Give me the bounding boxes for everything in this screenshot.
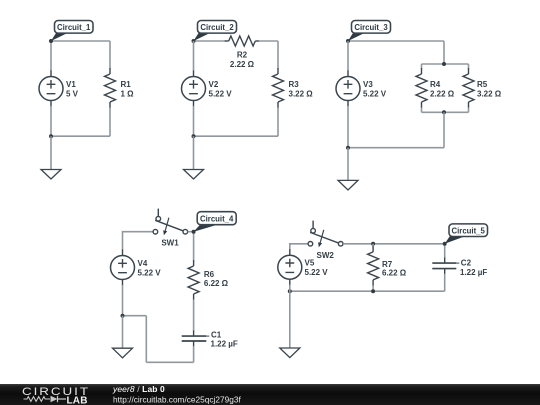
wire bottom C4 (146, 361, 193, 363)
wire V2 bottom (193, 106, 195, 136)
wire R7 bottom (372, 285, 374, 291)
svg-text:R4: R4 (430, 80, 441, 89)
resistor R4 (416, 68, 427, 108)
wire switch common to node C4 (188, 231, 194, 233)
wire R3 bottom (277, 108, 279, 137)
svg-text:2.22 Ω: 2.22 Ω (230, 60, 255, 69)
wire bottom C1 (51, 135, 110, 137)
switch SW1 (153, 209, 188, 236)
resistor R2 (225, 36, 260, 46)
svg-text:1.22 µF: 1.22 µF (211, 340, 238, 349)
svg-text:6.22 Ω: 6.22 Ω (204, 279, 229, 288)
wire R5 top (468, 64, 470, 69)
wire V1 bottom (50, 106, 52, 136)
wire top-left C2 (194, 40, 226, 42)
wire V2 top (193, 41, 195, 71)
label R7 6.22 ohm (382, 260, 407, 278)
node dot top-left C3 (346, 39, 350, 43)
wire C2 top (444, 244, 446, 258)
svg-text:V4: V4 (138, 259, 148, 268)
node Circuit_1 callout (51, 21, 93, 42)
wire V5 bottom (289, 285, 291, 292)
junction dot C4 (121, 314, 125, 318)
node dot C5 (443, 242, 447, 246)
svg-text:Circuit_2: Circuit_2 (200, 23, 234, 32)
wire R4 top (421, 64, 423, 69)
svg-text:5.22 V: 5.22 V (138, 268, 162, 277)
resistor R7 (368, 246, 379, 286)
label V3 5.22 V (363, 80, 387, 98)
label R1 1 ohm (121, 80, 135, 98)
ground C3 (338, 180, 358, 190)
wire from parallel pair down (443, 112, 445, 147)
wire R7 top (372, 244, 374, 247)
wire R5 bottom (468, 108, 470, 113)
label R2 2.22 ohm (230, 51, 255, 69)
svg-text:R2: R2 (237, 51, 248, 60)
wire V3 bottom (347, 106, 349, 148)
wire bottom C3 (348, 147, 444, 149)
junction dot parallel top (442, 62, 446, 66)
svg-text:LAB: LAB (67, 395, 88, 405)
junction dot V5 bottom (288, 289, 292, 293)
junction dot bottom C2 (192, 134, 196, 138)
svg-text:R1: R1 (121, 80, 132, 89)
junction dot bottom C3 (346, 146, 350, 150)
wire bottom C2 (194, 135, 279, 137)
wire to ground C1 (50, 136, 52, 169)
label R3 3.22 ohm (289, 80, 314, 98)
svg-text:C1: C1 (211, 330, 222, 339)
svg-text:1.22 µF: 1.22 µF (460, 268, 487, 277)
wire V3 top (347, 41, 349, 71)
wire V5 top (290, 244, 308, 250)
svg-text:5.22 V: 5.22 V (209, 89, 233, 98)
resistor R3 (273, 68, 284, 108)
svg-text:R6: R6 (204, 270, 215, 279)
junction dot parallel bottom (442, 110, 446, 114)
wire R6 bottom (193, 300, 195, 332)
ground C5 (280, 348, 300, 358)
voltage source V3 (336, 71, 360, 107)
wire riser C4 (145, 316, 147, 363)
svg-text:Circuit_5: Circuit_5 (452, 226, 486, 235)
capacitor C1 (182, 331, 210, 347)
wire bottom C5 (290, 290, 445, 292)
svg-text:V1: V1 (66, 80, 76, 89)
svg-text:R5: R5 (477, 80, 488, 89)
svg-text:3.22 Ω: 3.22 Ω (289, 89, 314, 98)
switch SW2 (308, 221, 343, 248)
node dot top-left C1 (49, 39, 53, 43)
voltage source V5 (278, 249, 302, 285)
ground C2 (184, 170, 204, 180)
svg-text:5.22 V: 5.22 V (305, 268, 329, 277)
wire C2 bottom (444, 274, 446, 292)
junction dot bottom C1 (49, 134, 53, 138)
capacitor C2 (432, 258, 459, 275)
label V1 5 V (66, 80, 79, 98)
wire top C5 (343, 243, 445, 245)
node Circuit_3 callout (348, 21, 391, 42)
node Circuit_4 callout (194, 212, 237, 232)
logo diode (51, 396, 58, 403)
voltage source V2 (182, 71, 206, 107)
resistor R1 (105, 68, 116, 108)
ground C1 (41, 170, 61, 180)
svg-text:5.22 V: 5.22 V (363, 89, 387, 98)
svg-text:yeer8 / Lab 0: yeer8 / Lab 0 (112, 384, 165, 394)
svg-text:2.22 Ω: 2.22 Ω (430, 89, 455, 98)
junction dot R7 top (371, 242, 375, 246)
wire to ground C4 (122, 316, 124, 348)
svg-text:R3: R3 (289, 80, 300, 89)
logo squiggle resistor (24, 397, 51, 402)
wire R1 top (109, 41, 111, 69)
wire parallel bottom rail (422, 111, 469, 113)
voltage source V1 (39, 71, 63, 107)
svg-text:Circuit_1: Circuit_1 (57, 23, 91, 32)
svg-text:V5: V5 (305, 259, 315, 268)
voltage source V4 (111, 250, 135, 286)
label R4 2.22 ohm (430, 80, 455, 98)
wire feed to parallel pair (443, 41, 445, 64)
svg-text:Circuit_3: Circuit_3 (354, 23, 388, 32)
wire R1 bottom (109, 108, 111, 137)
label V2 5.22 V (209, 80, 233, 98)
wire C1 bottom (193, 346, 195, 362)
node Circuit_5 callout (445, 224, 488, 244)
label R5 3.22 ohm (477, 80, 502, 98)
wire top C3 (348, 40, 444, 42)
svg-text:1 Ω: 1 Ω (121, 90, 135, 99)
ground C4 (113, 348, 133, 358)
wire stub from V4 branch (123, 315, 147, 317)
svg-text:Circuit_4: Circuit_4 (200, 214, 234, 223)
wire to ground C5 (289, 291, 291, 347)
svg-text:SW1: SW1 (161, 239, 179, 248)
wire top C1 (51, 40, 110, 42)
node Circuit_2 callout (194, 21, 237, 42)
wire parallel top rail (422, 63, 469, 65)
svg-text:6.22 Ω: 6.22 Ω (382, 269, 407, 278)
svg-text:V3: V3 (363, 80, 373, 89)
junction dot R7 bottom (371, 289, 375, 293)
wire to ground C3 (347, 148, 349, 180)
resistor R5 (463, 68, 474, 108)
wire V4 top (123, 232, 153, 250)
wire to ground C2 (193, 136, 195, 169)
label V4 5.22 V (138, 259, 162, 277)
wire R3 top (277, 41, 279, 69)
svg-text:http://circuitlab.com/ce25qcj2: http://circuitlab.com/ce25qcj279g3f (113, 394, 241, 404)
resistor R6 (188, 260, 199, 300)
svg-text:SW2: SW2 (317, 251, 335, 260)
svg-text:C2: C2 (461, 259, 472, 268)
wire V1 top (50, 41, 52, 71)
label C1 1.22 uF (211, 330, 238, 348)
wire V4 bottom (122, 285, 124, 316)
node dot top-left C2 (192, 39, 196, 43)
label R6 6.22 ohm (204, 270, 229, 288)
svg-text:V2: V2 (209, 80, 219, 89)
svg-text:3.22 Ω: 3.22 Ω (477, 89, 502, 98)
node dot C4 (192, 230, 196, 234)
label V5 5.22 V (305, 259, 329, 277)
svg-text:5 V: 5 V (66, 89, 79, 98)
wire R4 bottom (421, 108, 423, 113)
wire R6 top (193, 232, 195, 261)
label C2 1.22 uF (460, 259, 487, 278)
wire top-right C2 (259, 40, 278, 42)
